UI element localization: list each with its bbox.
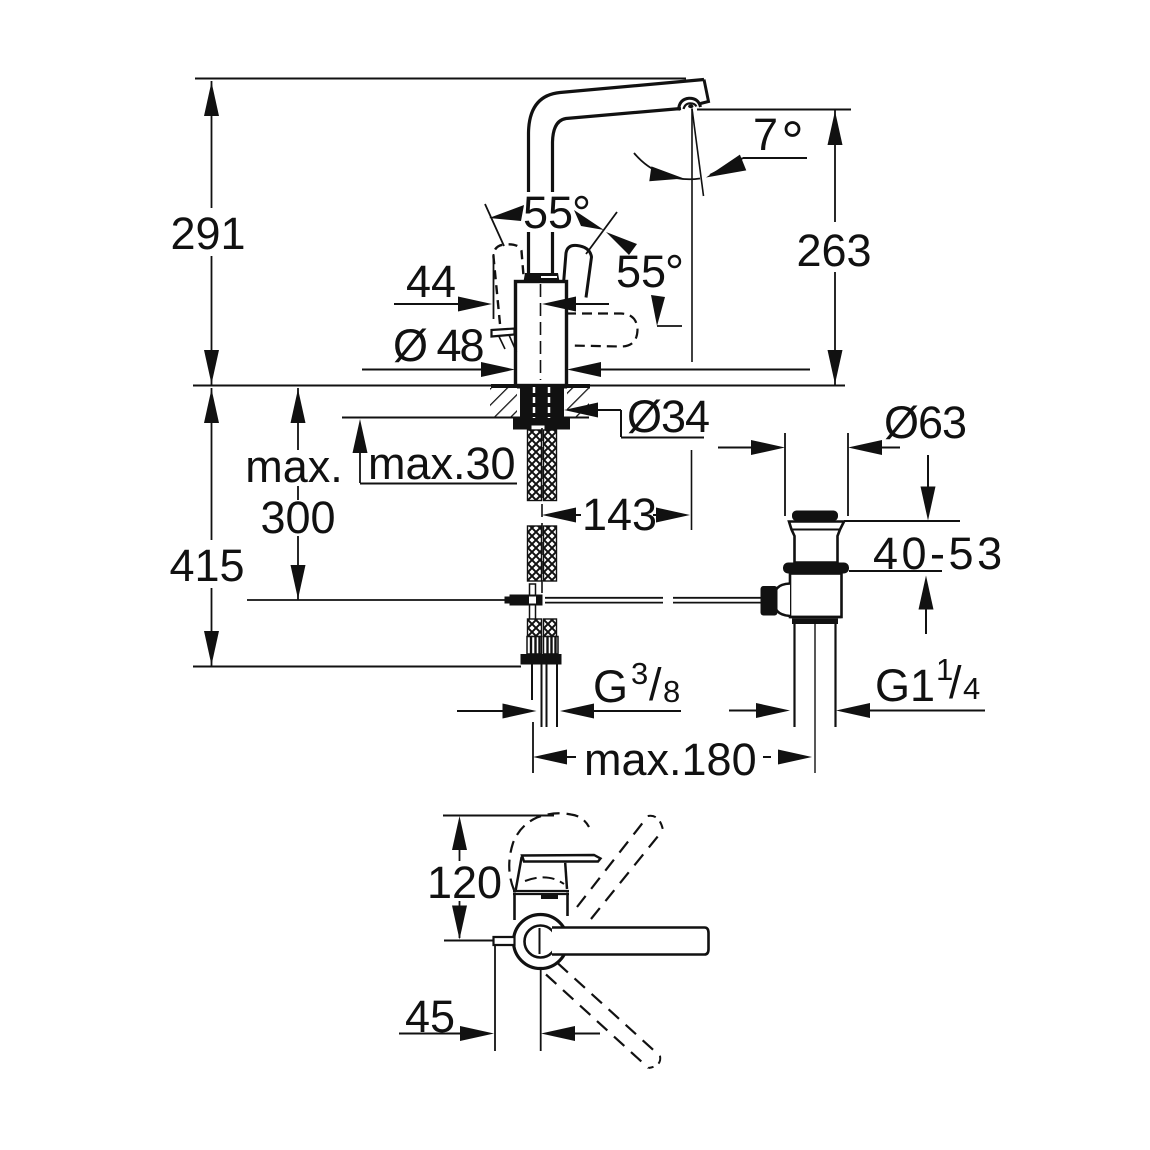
svg-text:415: 415 (169, 540, 244, 591)
svg-text:max.: max. (245, 441, 343, 492)
svg-text:7: 7 (753, 109, 778, 160)
svg-text:4: 4 (963, 671, 980, 706)
svg-text:3: 3 (631, 656, 648, 691)
svg-text:55: 55 (616, 246, 666, 297)
svg-text:/: / (949, 657, 962, 708)
svg-text:55: 55 (523, 187, 573, 238)
svg-text:Ø63: Ø63 (884, 397, 966, 448)
svg-text:120: 120 (427, 857, 502, 908)
svg-text:291: 291 (170, 208, 245, 259)
svg-text:143: 143 (582, 489, 657, 540)
svg-text:8: 8 (663, 674, 680, 709)
svg-text:G1: G1 (875, 660, 935, 711)
svg-text:max.30: max.30 (368, 438, 516, 489)
svg-text:Ø34: Ø34 (627, 391, 709, 442)
svg-text:44: 44 (406, 256, 456, 307)
svg-text:Ø 48: Ø 48 (393, 320, 484, 371)
svg-text:max.180: max.180 (584, 734, 757, 785)
svg-text:263: 263 (796, 225, 871, 276)
svg-text:/: / (649, 659, 662, 710)
svg-text:45: 45 (405, 991, 455, 1042)
svg-text:300: 300 (260, 492, 335, 543)
svg-text:G: G (593, 661, 628, 712)
